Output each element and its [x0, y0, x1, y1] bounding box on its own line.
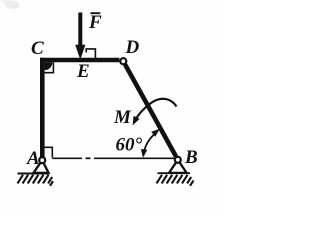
right-angle marker C — [45, 62, 54, 72]
corner gusset C — [45, 62, 53, 70]
bar DB — [125, 65, 176, 157]
right-angle marker E — [86, 49, 95, 58]
moment M arc — [133, 99, 177, 126]
force F arrow — [75, 13, 85, 60]
angle 60 arc — [141, 129, 160, 158]
label F with overbar — [88, 12, 102, 33]
support triangle B — [169, 160, 187, 173]
svg-text:B: B — [184, 147, 198, 168]
hinge B — [175, 157, 181, 163]
svg-text:A: A — [26, 148, 40, 169]
smudge top-left — [1, 0, 12, 8]
svg-text:D: D — [125, 37, 140, 58]
svg-text:M: M — [113, 107, 132, 128]
ground line B — [158, 172, 191, 174]
beam CD — [40, 58, 119, 63]
column AC — [40, 58, 45, 157]
hinge D — [120, 58, 126, 64]
svg-text:F: F — [88, 12, 102, 33]
ground hatch B — [157, 175, 194, 186]
hinge A — [39, 157, 45, 163]
ground hatch A — [18, 175, 54, 186]
svg-text:60°: 60° — [116, 135, 143, 156]
svg-text:E: E — [76, 61, 90, 82]
svg-text:C: C — [31, 38, 44, 59]
ground line A — [18, 173, 50, 175]
support triangle A — [34, 160, 49, 173]
right-angle marker A — [42, 147, 52, 157]
dash-dot line AB — [52, 157, 174, 159]
